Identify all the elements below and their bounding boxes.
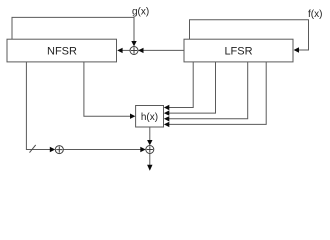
wire NFSR tap left down [26,62,52,150]
svg-text:f(x): f(x) [308,9,322,20]
wire f-loop [190,20,309,50]
wire h(x) output down [149,127,151,143]
arrowhead into X2 [50,147,55,152]
h(x) box [136,106,164,128]
arrowhead LFSR tap4 into h(x) [164,122,169,127]
LFSR box [184,39,293,62]
arrowhead NFSR tap into h(x) [130,114,135,119]
arrowhead LFSR into X1 [138,48,143,53]
arrowhead LFSR tap2 into h(x) [164,110,169,115]
svg-text:NFSR: NFSR [47,45,77,57]
arrowhead f-loop into LFSR [294,47,299,52]
wire LFSR to xor X1 [141,49,184,51]
arrowhead LFSR tap1 into h(x) [164,105,169,110]
xor X2 [55,146,63,154]
arrowhead output [147,165,152,171]
slash bits marker [30,145,36,153]
svg-text:LFSR: LFSR [224,45,252,57]
arrowhead g-loop into X1 [131,41,136,46]
wire X2 to X3 [63,149,142,151]
NFSR box [7,39,117,62]
arrowhead X1 into NFSR [117,48,122,53]
xor X1 [130,47,138,55]
wire X3 output down [149,154,151,167]
arrowhead LFSR tap3 into h(x) [164,116,169,121]
wire LFSR tap 2 [167,62,216,113]
wire LFSR tap 1 [167,62,194,108]
wire LFSR tap 3 [167,62,248,119]
wire NFSR tap to h(x) [84,62,132,116]
svg-text:h(x): h(x) [141,112,158,123]
arrowhead h(x) into X3 [147,140,152,145]
xor X3 [146,146,154,154]
wire X1 to NFSR [120,49,130,51]
wire LFSR tap 4 [167,62,267,125]
svg-text:g(x): g(x) [132,7,149,18]
wire g-loop [12,17,134,44]
arrowhead X2 into X3 [140,147,145,152]
